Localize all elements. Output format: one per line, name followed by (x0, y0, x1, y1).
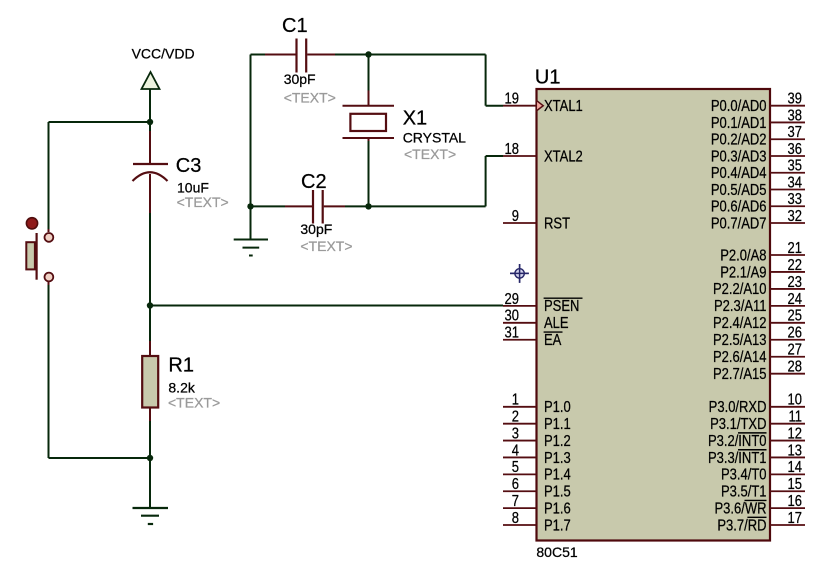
svg-text:P3.3/INT1: P3.3/INT1 (708, 450, 767, 467)
svg-text:24: 24 (788, 291, 803, 308)
svg-text:29: 29 (505, 291, 520, 308)
svg-text:P1.4: P1.4 (544, 467, 571, 484)
svg-text:1: 1 (512, 392, 519, 409)
svg-text:37: 37 (788, 124, 803, 141)
svg-text:XTAL1: XTAL1 (544, 98, 583, 115)
svg-text:34: 34 (788, 174, 803, 191)
svg-text:P1.2: P1.2 (544, 433, 571, 450)
svg-text:30: 30 (505, 308, 520, 325)
svg-text:7: 7 (512, 493, 519, 510)
svg-text:ALE: ALE (544, 315, 569, 332)
svg-text:<TEXT>: <TEXT> (300, 238, 352, 254)
svg-text:P3.5/T1: P3.5/T1 (721, 484, 767, 501)
svg-text:3: 3 (512, 425, 519, 442)
svg-text:P0.1/AD1: P0.1/AD1 (711, 115, 767, 132)
svg-text:P3.0/RXD: P3.0/RXD (709, 399, 767, 416)
svg-text:13: 13 (788, 442, 803, 459)
svg-text:P0.7/AD7: P0.7/AD7 (711, 215, 767, 232)
svg-text:<TEXT>: <TEXT> (168, 395, 220, 411)
svg-text:38: 38 (788, 107, 803, 124)
svg-text:P1.3: P1.3 (544, 450, 571, 467)
svg-text:11: 11 (788, 409, 802, 426)
svg-text:P1.5: P1.5 (544, 484, 571, 501)
svg-text:P0.0/AD0: P0.0/AD0 (711, 98, 767, 115)
svg-text:VCC/VDD: VCC/VDD (132, 46, 195, 62)
svg-text:P3.7/RD: P3.7/RD (717, 517, 766, 534)
svg-text:P2.0/A8: P2.0/A8 (720, 247, 766, 264)
svg-text:15: 15 (788, 476, 803, 493)
svg-text:80C51: 80C51 (536, 544, 577, 560)
svg-text:P1.6: P1.6 (544, 500, 571, 517)
svg-text:8: 8 (512, 510, 519, 527)
svg-text:27: 27 (788, 342, 803, 359)
svg-text:P0.5/AD5: P0.5/AD5 (711, 182, 767, 199)
svg-text:X1: X1 (403, 107, 427, 129)
svg-text:P0.4/AD4: P0.4/AD4 (711, 165, 767, 182)
svg-text:8.2k: 8.2k (168, 379, 195, 395)
svg-text:P1.0: P1.0 (544, 399, 571, 416)
svg-text:P2.5/A13: P2.5/A13 (713, 332, 767, 349)
svg-text:P0.2/AD2: P0.2/AD2 (711, 132, 767, 149)
svg-text:26: 26 (788, 325, 803, 342)
svg-text:<TEXT>: <TEXT> (404, 146, 456, 162)
svg-text:P2.4/A12: P2.4/A12 (713, 315, 767, 332)
svg-text:C1: C1 (282, 15, 308, 37)
svg-text:P3.4/T0: P3.4/T0 (721, 467, 767, 484)
svg-text:5: 5 (512, 459, 519, 476)
svg-text:P2.7/A15: P2.7/A15 (713, 366, 767, 383)
svg-text:25: 25 (788, 308, 803, 325)
svg-text:U1: U1 (535, 67, 561, 89)
svg-text:<TEXT>: <TEXT> (177, 194, 229, 210)
svg-text:39: 39 (788, 91, 803, 108)
svg-text:EA: EA (544, 332, 562, 349)
svg-text:XTAL2: XTAL2 (544, 148, 583, 165)
svg-text:P0.6/AD6: P0.6/AD6 (711, 199, 767, 216)
svg-text:R1: R1 (168, 355, 194, 377)
svg-text:P3.2/INT0: P3.2/INT0 (708, 433, 767, 450)
svg-text:35: 35 (788, 158, 803, 175)
svg-text:C3: C3 (176, 155, 202, 177)
svg-text:14: 14 (788, 459, 803, 476)
svg-text:PSEN: PSEN (544, 298, 579, 315)
svg-text:4: 4 (512, 442, 519, 459)
svg-text:16: 16 (788, 493, 803, 510)
svg-text:12: 12 (788, 425, 803, 442)
svg-text:23: 23 (788, 274, 803, 291)
svg-text:RST: RST (544, 215, 570, 232)
svg-text:CRYSTAL: CRYSTAL (403, 129, 466, 145)
svg-text:P2.1/A9: P2.1/A9 (720, 264, 766, 281)
svg-text:P3.1/TXD: P3.1/TXD (710, 416, 766, 433)
svg-text:32: 32 (788, 208, 803, 225)
svg-text:P0.3/AD3: P0.3/AD3 (711, 148, 767, 165)
svg-text:10: 10 (788, 392, 803, 409)
svg-text:21: 21 (788, 240, 803, 257)
svg-text:18: 18 (505, 141, 520, 158)
svg-text:P1.7: P1.7 (544, 517, 571, 534)
svg-text:17: 17 (788, 510, 803, 527)
svg-text:9: 9 (512, 208, 519, 225)
svg-text:C2: C2 (301, 171, 327, 193)
svg-text:36: 36 (788, 141, 803, 158)
svg-text:30pF: 30pF (300, 221, 332, 237)
svg-text:2: 2 (512, 409, 519, 426)
svg-text:31: 31 (505, 325, 520, 342)
svg-text:19: 19 (505, 91, 520, 108)
svg-text:<TEXT>: <TEXT> (284, 89, 336, 105)
svg-text:6: 6 (512, 476, 519, 493)
svg-text:28: 28 (788, 359, 803, 376)
svg-text:30pF: 30pF (284, 71, 316, 87)
svg-text:P3.6/WR: P3.6/WR (714, 500, 766, 517)
svg-text:P1.1: P1.1 (544, 416, 571, 433)
svg-text:33: 33 (788, 191, 803, 208)
svg-text:P2.3/A11: P2.3/A11 (714, 298, 767, 315)
svg-text:22: 22 (788, 257, 803, 274)
svg-text:P2.2/A10: P2.2/A10 (713, 281, 767, 298)
svg-text:P2.6/A14: P2.6/A14 (713, 349, 767, 366)
